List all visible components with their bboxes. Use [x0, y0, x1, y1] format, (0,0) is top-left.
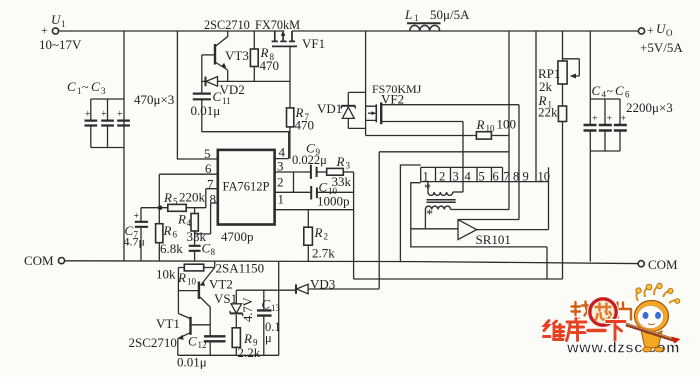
- svg-text:6: 6: [493, 170, 499, 184]
- svg-text:COM: COM: [648, 257, 678, 272]
- wire C11 bottom row y131.7: [202, 131, 290, 133]
- label winding polarity stars: [424, 182, 433, 223]
- wire COM ground rail: [65, 261, 638, 264]
- capacitor C8: [189, 246, 201, 262]
- svg-text:~: ~: [82, 80, 89, 94]
- svg-text:100: 100: [497, 117, 517, 132]
- svg-text:4700p: 4700p: [221, 229, 254, 244]
- wire rail drop x509: [508, 31, 510, 182]
- label VD1: [317, 101, 342, 116]
- svg-text:*: *: [426, 208, 433, 223]
- label VD3: [310, 277, 335, 292]
- label R5 220k: [163, 190, 206, 207]
- svg-text:13: 13: [271, 303, 281, 313]
- watermark char xia: [607, 322, 626, 341]
- svg-text:1: 1: [77, 86, 82, 96]
- inductor L1: [407, 23, 441, 31]
- wire rail drop x536: [535, 31, 537, 182]
- svg-text:9: 9: [523, 170, 529, 184]
- label 4.7V rotated: [241, 297, 255, 322]
- resistor R3: [317, 168, 354, 175]
- svg-text:3: 3: [453, 170, 459, 184]
- svg-text:SR101: SR101: [476, 232, 511, 247]
- svg-text:4: 4: [187, 218, 192, 228]
- label VS1: [214, 291, 237, 306]
- svg-text:VD1: VD1: [317, 101, 342, 116]
- label R1 22k: [538, 93, 559, 120]
- wire VT2 emitter tap: [214, 262, 216, 268]
- svg-text:2SC2710: 2SC2710: [204, 18, 250, 32]
- label C12 0.01u: [177, 334, 207, 370]
- label FS70KMJ: [372, 82, 422, 96]
- svg-text:C: C: [213, 89, 222, 104]
- svg-text:5: 5: [479, 170, 485, 184]
- svg-text:+: +: [647, 23, 654, 37]
- resistor R7: [287, 46, 294, 158]
- label R8 470: [260, 45, 280, 73]
- label FX70kM: [255, 18, 300, 32]
- resistor R10 10k: [178, 264, 214, 271]
- svg-text:5: 5: [204, 146, 211, 161]
- label C4~C6 2200u x3: [592, 83, 673, 125]
- watermark logo: [544, 283, 681, 356]
- ic FA7612P: [218, 150, 275, 225]
- svg-text:2.7k: 2.7k: [312, 246, 335, 261]
- label VF1: [302, 36, 325, 51]
- output terminal Uo: [638, 28, 644, 34]
- svg-text:~: ~: [607, 84, 614, 98]
- diode VD3: [236, 284, 379, 294]
- svg-text:7: 7: [504, 170, 510, 184]
- resistor R8: [250, 31, 258, 81]
- pin 7: [206, 189, 218, 208]
- resistor R2: [304, 210, 313, 262]
- wire pin3 to pin2 jog: [293, 172, 295, 192]
- svg-text:0.01μ: 0.01μ: [177, 355, 207, 370]
- svg-text:6: 6: [173, 230, 178, 240]
- label VD2: [220, 82, 245, 97]
- watermark char pian: [618, 303, 632, 320]
- svg-text:11: 11: [222, 96, 231, 106]
- svg-text:C: C: [67, 79, 76, 94]
- diode VD2: [206, 77, 218, 87]
- label COM left: [24, 253, 54, 268]
- svg-text:10: 10: [187, 277, 197, 287]
- label C9 0.022u: [292, 141, 327, 168]
- pin 5: [204, 146, 211, 161]
- diode VD1: [341, 92, 355, 128]
- svg-text:470μ×3: 470μ×3: [134, 92, 174, 107]
- wire bottom return y355.3: [178, 354, 279, 356]
- label 2SC2710 bottom: [129, 335, 177, 350]
- label 4700p: [221, 229, 254, 244]
- svg-text:2: 2: [324, 232, 329, 242]
- label C8: [202, 241, 216, 258]
- watermark char yi: [588, 328, 605, 334]
- label R3 33k: [332, 154, 352, 189]
- label C13 0.1u: [262, 297, 281, 346]
- resistor R4: [191, 208, 198, 246]
- svg-text:C: C: [319, 180, 328, 195]
- transformer core: [427, 200, 456, 203]
- label 470u x3: [134, 92, 174, 107]
- svg-text:+: +: [85, 109, 91, 120]
- svg-text:R: R: [163, 223, 172, 238]
- watermark url www.dzsc.com: [566, 340, 680, 357]
- svg-text:R: R: [336, 154, 345, 169]
- capacitor C7: [135, 208, 160, 261]
- resistor R5: [160, 204, 206, 211]
- svg-text:C: C: [592, 83, 601, 98]
- svg-text:2: 2: [439, 170, 445, 184]
- svg-text:FA7612P: FA7612P: [223, 180, 270, 194]
- svg-text:VD2: VD2: [220, 82, 245, 97]
- mascot: [626, 283, 681, 352]
- svg-text:R: R: [314, 225, 323, 240]
- svg-text:+: +: [117, 109, 123, 120]
- resistor R9: [232, 328, 240, 356]
- svg-text:6.8k: 6.8k: [160, 241, 183, 256]
- label SR101: [476, 232, 511, 247]
- svg-text:2SA1150: 2SA1150: [216, 261, 265, 276]
- svg-text:1: 1: [278, 192, 285, 207]
- svg-text:6: 6: [205, 161, 212, 176]
- svg-text:C: C: [202, 241, 211, 256]
- svg-text:+: +: [101, 109, 107, 120]
- svg-text:VD3: VD3: [310, 277, 335, 292]
- wire pin4 column x463: [462, 136, 464, 193]
- svg-text:3: 3: [277, 159, 284, 174]
- svg-text:R: R: [163, 190, 172, 205]
- node COM left terminal: [58, 258, 64, 264]
- block outer box: [400, 165, 420, 262]
- pin row digits 1-10: [423, 170, 551, 184]
- svg-text:*: *: [424, 182, 431, 197]
- svg-text:COM: COM: [24, 253, 54, 268]
- svg-text:C: C: [91, 79, 100, 94]
- label VF2: [381, 92, 404, 107]
- wire node x353.6: [353, 172, 355, 279]
- svg-text:2k: 2k: [539, 79, 553, 94]
- svg-text:8: 8: [210, 192, 217, 207]
- svg-text:2.2k: 2.2k: [238, 345, 261, 360]
- node junction dot: [158, 205, 163, 210]
- wire R10 line y135.5: [366, 135, 509, 137]
- svg-text:μ: μ: [265, 331, 272, 345]
- pin 6: [159, 173, 218, 175]
- svg-text:0.022μ: 0.022μ: [292, 153, 327, 167]
- wire VD3 riser x379.2: [378, 152, 380, 289]
- wire VD2 node row y81.4: [202, 80, 290, 82]
- transistor VT1: [178, 314, 210, 356]
- svg-text:R: R: [476, 117, 485, 132]
- transistor VT2: [178, 268, 214, 336]
- label C11 0.01u: [191, 89, 231, 118]
- svg-text:50μ/5A: 50μ/5A: [430, 7, 470, 22]
- wire pin6 drop to node: [158, 174, 160, 208]
- svg-text:6: 6: [625, 90, 630, 100]
- svg-text:+: +: [607, 114, 613, 125]
- pin 4: [275, 132, 289, 159]
- svg-text:1000p: 1000p: [317, 194, 350, 209]
- label 2SA1150: [216, 261, 265, 276]
- wire VT3 base drop x201.8: [201, 55, 203, 82]
- capacitor C13: [257, 290, 272, 355]
- svg-text:220k: 220k: [179, 190, 206, 205]
- svg-text:+: +: [41, 23, 48, 37]
- svg-text:4.7V: 4.7V: [241, 297, 255, 322]
- zener VS1: [230, 290, 243, 328]
- amplifier SR101: [411, 167, 549, 239]
- wire latch left rail x178.4: [177, 268, 179, 314]
- label C10 1000p: [317, 180, 350, 209]
- label R7 470: [295, 105, 315, 133]
- label FA7612P: [223, 180, 270, 194]
- resistor R6: [156, 208, 163, 262]
- label +Uo +5V/5A: [640, 21, 683, 55]
- svg-text:+: +: [134, 211, 140, 222]
- svg-text:8: 8: [211, 247, 216, 257]
- watermark char ku: [567, 319, 587, 341]
- pin 1: [275, 209, 354, 211]
- svg-text:4.7μ: 4.7μ: [124, 235, 145, 249]
- svg-text:VT1: VT1: [156, 316, 180, 331]
- mosfet VF1: [272, 31, 297, 46]
- label R9 2.2k: [238, 331, 261, 360]
- svg-text:4: 4: [465, 170, 472, 184]
- capacitor C9: [311, 165, 317, 179]
- label COM right: [648, 257, 678, 272]
- label 2SC2710 top: [204, 18, 250, 32]
- watermark char zhao: [572, 302, 591, 319]
- svg-text:2SC2710: 2SC2710: [129, 335, 177, 350]
- wire feedback y279: [354, 278, 563, 280]
- wire gate line D y104.7: [386, 104, 519, 106]
- svg-text:470: 470: [295, 118, 315, 133]
- wire switch node drop x365.6: [365, 31, 367, 136]
- svg-text:470: 470: [260, 58, 280, 73]
- svg-text:2: 2: [277, 175, 284, 190]
- svg-text:1: 1: [61, 19, 66, 29]
- svg-text:1: 1: [414, 13, 419, 23]
- transformer winding 1: [428, 182, 463, 196]
- svg-text:C: C: [262, 297, 271, 312]
- svg-text:3: 3: [101, 86, 106, 96]
- red seal circle with xin: [590, 299, 616, 325]
- svg-text:10~17V: 10~17V: [39, 37, 82, 52]
- svg-text:2200μ×3: 2200μ×3: [626, 100, 673, 115]
- pin 2: [275, 191, 354, 193]
- label VT3: [225, 48, 249, 63]
- wire VD1 top link: [348, 91, 365, 93]
- capacitor C12: [204, 336, 226, 355]
- svg-text:10k: 10k: [156, 267, 176, 282]
- svg-text:VT2: VT2: [209, 277, 233, 292]
- label VT1: [156, 316, 180, 331]
- watermark char wei: [544, 321, 565, 340]
- svg-text:R: R: [243, 331, 252, 346]
- svg-text:C: C: [615, 83, 624, 98]
- label R2 2.7k: [312, 225, 335, 261]
- label L1 50u/5A: [404, 7, 470, 23]
- capacitor C4-C6 bank: [584, 31, 627, 262]
- resistor R1: [558, 106, 566, 279]
- svg-text:VT3: VT3: [225, 48, 249, 63]
- label R6 6.8k: [160, 223, 183, 256]
- wire input branch vertical x124: [123, 31, 125, 261]
- wire line D drop x519: [459, 105, 520, 220]
- transformer winding 2: [425, 182, 509, 229]
- potentiometer RP1: [558, 31, 579, 106]
- node COM right terminal: [638, 261, 644, 267]
- svg-text:R: R: [177, 212, 186, 227]
- svg-text:C: C: [188, 334, 197, 349]
- wire ground drop x278.7: [278, 262, 280, 356]
- wire VD1 bottom link: [348, 127, 365, 129]
- label VT2: [209, 277, 233, 292]
- transistor VT3: [202, 31, 228, 81]
- svg-text:+5V/5A: +5V/5A: [640, 40, 683, 55]
- svg-text:+: +: [621, 114, 627, 125]
- svg-text:12: 12: [198, 340, 207, 350]
- svg-text:FX70kM: FX70kM: [255, 18, 300, 32]
- pin row boxes: [421, 167, 549, 181]
- label RP1 2k: [538, 66, 560, 94]
- svg-text:10: 10: [486, 124, 496, 134]
- svg-text:L: L: [404, 7, 412, 22]
- capacitor C1-C3 bank: [85, 99, 130, 148]
- label C1~C3 plus signs: [67, 79, 123, 120]
- label R10 100: [476, 117, 517, 134]
- pin 8: [195, 203, 218, 234]
- wire top rail: [59, 30, 639, 32]
- svg-text:+: +: [592, 114, 598, 125]
- svg-text:8: 8: [513, 170, 519, 184]
- capacitor C11: [193, 81, 211, 131]
- svg-text:0.01μ: 0.01μ: [191, 103, 221, 118]
- pin 3: [275, 171, 311, 173]
- block inner box: [411, 183, 547, 279]
- capacitor C10: [311, 186, 317, 200]
- resistor R10 100: [476, 132, 491, 139]
- wire line B y151.8: [379, 151, 509, 153]
- svg-text:5: 5: [173, 197, 178, 207]
- svg-text:4: 4: [279, 145, 286, 160]
- svg-text:VS1: VS1: [214, 291, 237, 306]
- mosfet VF2: [366, 102, 386, 124]
- label 10k R10: [156, 267, 197, 287]
- svg-text:O: O: [666, 28, 673, 38]
- svg-text:22k: 22k: [538, 105, 558, 120]
- svg-text:VF1: VF1: [302, 36, 325, 51]
- label C7 4.7u: [124, 211, 145, 249]
- wire source line y121.5: [386, 122, 463, 136]
- wire pin5 riser x177: [177, 31, 217, 159]
- svg-text:7: 7: [207, 177, 214, 192]
- label R4 33k: [177, 212, 207, 245]
- input terminal U1: [52, 28, 58, 34]
- svg-text:3: 3: [346, 161, 351, 171]
- label +U1 10~17V: [39, 12, 82, 52]
